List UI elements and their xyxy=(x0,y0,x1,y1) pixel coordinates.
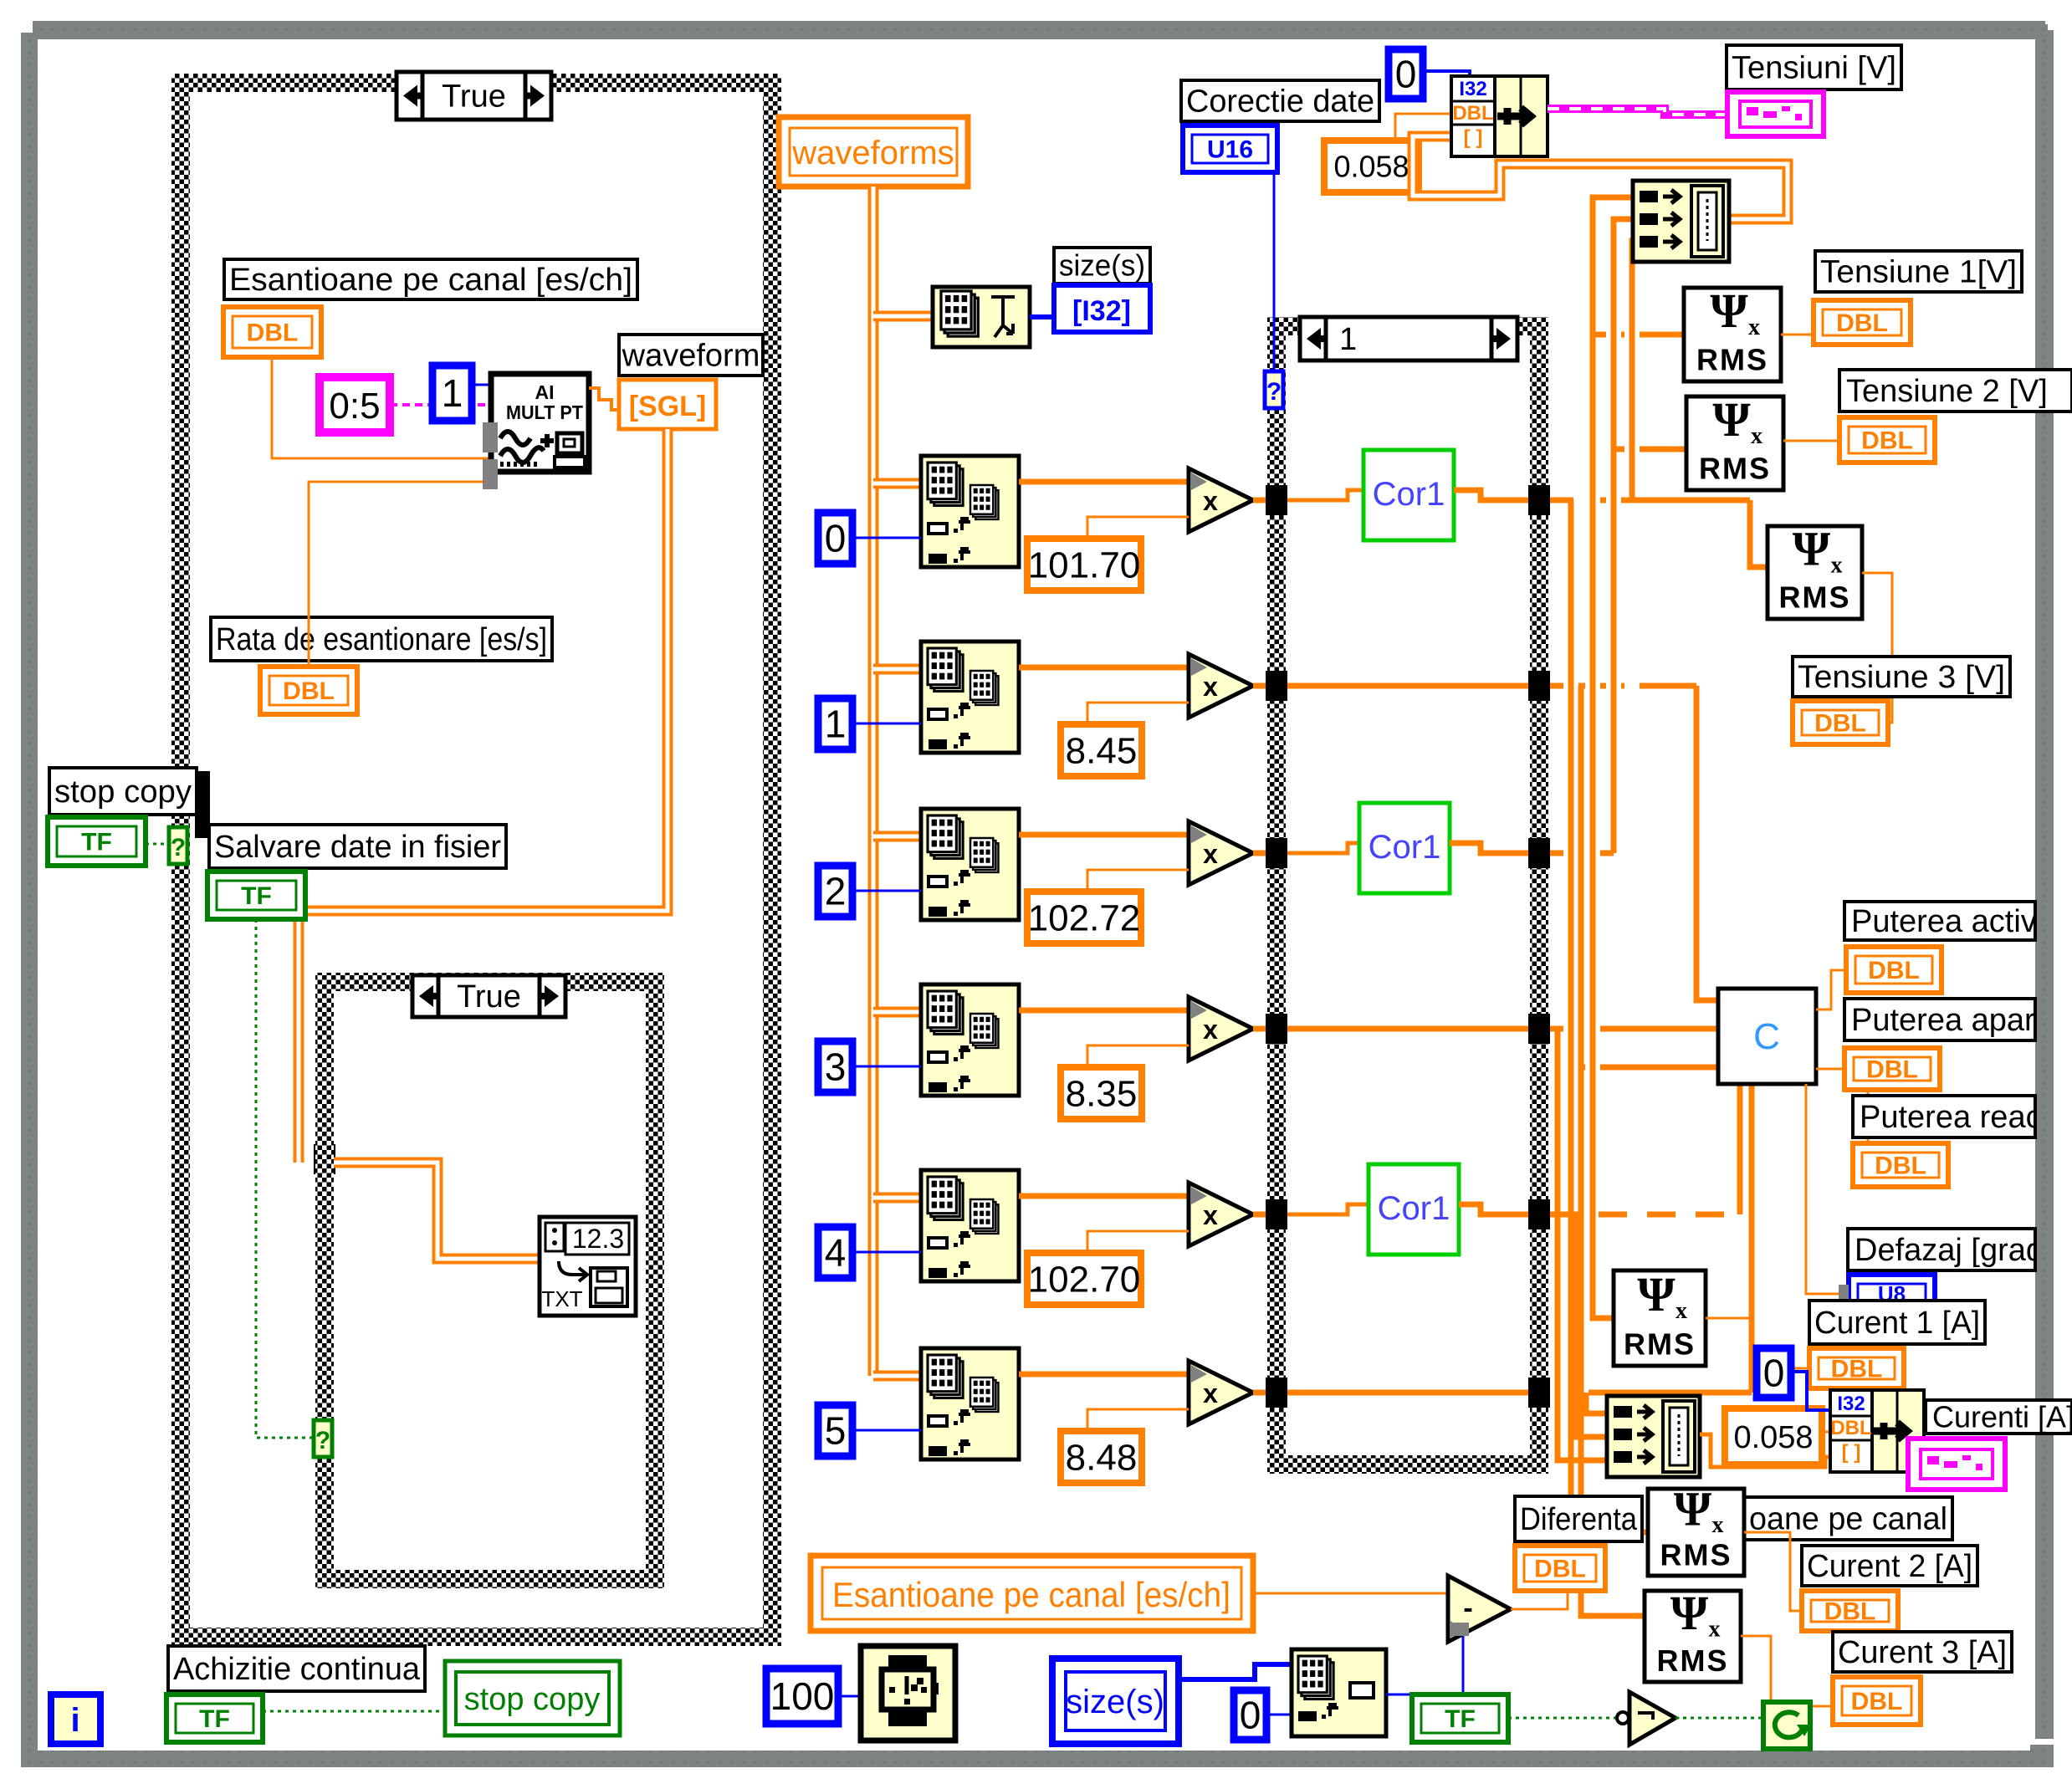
multiply node row 4 xyxy=(1189,1183,1253,1246)
svg-text:x: x xyxy=(1203,1378,1218,1408)
svg-text:RMS: RMS xyxy=(1779,580,1851,615)
wire across case 3 row 1 xyxy=(1287,683,1528,689)
svg-text:waveform: waveform xyxy=(622,338,760,373)
array wire branch to Array Size xyxy=(873,311,933,322)
wire row1 elbow into RMS3 xyxy=(1750,500,1768,567)
svg-text:[ ]: [ ] xyxy=(1464,126,1483,149)
rail to RMS5 input xyxy=(1568,500,1574,1532)
constant "0" (bundle 2 index) xyxy=(1757,1348,1791,1398)
svg-text:102.72: 102.72 xyxy=(1028,897,1141,938)
label "Salvare date in fisier" xyxy=(209,825,506,868)
svg-text:Cor1: Cor1 xyxy=(1378,1190,1450,1227)
wire AI node to waveform indicator xyxy=(589,388,621,410)
label "waveforms" (wire label) xyxy=(779,117,968,187)
svg-text:DBL: DBL xyxy=(1836,309,1888,337)
tunnel case 3 left row 2 xyxy=(1266,838,1287,868)
indicator "[SGL]" (waveform array) xyxy=(619,380,716,429)
multiply node row 1 xyxy=(1189,654,1253,718)
label "Diferenta" xyxy=(1515,1496,1642,1541)
wire Index Array out row 2 xyxy=(1019,832,1189,838)
constant "2" row index xyxy=(818,866,852,917)
rail to RMS6 input xyxy=(1581,686,1645,1616)
indicator DBL "Curent 3" xyxy=(1833,1677,1921,1725)
svg-text:Esantioane pe canal [es/ch]: Esantioane pe canal [es/ch] xyxy=(832,1575,1230,1614)
case structure 3 selector terminal "?" xyxy=(1265,371,1283,408)
control DBL "Rata de esantionare" xyxy=(260,667,357,714)
svg-text:DBL: DBL xyxy=(247,319,299,347)
label "Curenti [A]" xyxy=(1926,1399,2072,1434)
case structure 2 selector label "True" xyxy=(412,975,565,1017)
boolean wire TF to Not gate xyxy=(1508,1717,1619,1720)
wire Index Array out row 3 xyxy=(1019,1008,1189,1014)
waveform wire Bundle 1 to Tensiuni graph (magenta) xyxy=(1548,109,1727,115)
black junction block (stop copy) xyxy=(195,771,210,838)
svg-text:DBL: DBL xyxy=(283,677,335,705)
wire RMS3 to DBL Tensiune 3 xyxy=(1862,573,1892,723)
svg-text:Cor1: Cor1 xyxy=(1369,829,1441,866)
svg-text:102.70: 102.70 xyxy=(1028,1259,1141,1300)
svg-text:Curent 3 [A]: Curent 3 [A] xyxy=(1838,1635,2007,1670)
svg-text:Curenti [A]: Curenti [A] xyxy=(1932,1399,2072,1434)
svg-text:1: 1 xyxy=(1339,322,1357,357)
subVI "Cor1" row 4 xyxy=(1369,1164,1459,1255)
wire U16 to case 3 selector xyxy=(1273,172,1276,371)
wire constant 8.45 to multiply xyxy=(1087,703,1189,724)
wire constant 8.48 to multiply xyxy=(1087,1409,1189,1431)
label "Defazaj [grade]" xyxy=(1848,1229,2070,1270)
svg-text:x: x xyxy=(1748,314,1760,340)
constant "0" (index bottom) xyxy=(1234,1690,1266,1740)
svg-text:12.3: 12.3 xyxy=(572,1224,624,1254)
label "Curent 3 [A]" xyxy=(1833,1632,2012,1672)
rail V2 (build array 1 input 2 / RMS2) xyxy=(1614,219,1633,853)
array wire tunnel to Write File node xyxy=(334,1163,540,1259)
tunnel case 3 left row 5 xyxy=(1266,1378,1287,1408)
node "Write to Spreadsheet File" (12.3 TXT) xyxy=(540,1217,636,1316)
wire row5 dashes to C rail xyxy=(1550,1212,1740,1218)
constant "1" (device) xyxy=(432,365,472,421)
label "Corectie date" xyxy=(1181,80,1379,121)
svg-text:8.45: 8.45 xyxy=(1066,730,1138,771)
wire 100 to Wait node xyxy=(838,1695,861,1698)
wire Cor1 to tunnel row 2 xyxy=(1450,843,1528,853)
svg-text:x: x xyxy=(1709,1617,1721,1643)
boolean wire Salvare to case 2 selector xyxy=(256,919,315,1438)
indicator DBL "Curent 1" xyxy=(1809,1348,1904,1388)
indicator U8 "Defazaj" xyxy=(1849,1275,1935,1313)
case structure 1 selector label "True" xyxy=(396,72,551,120)
label "size(s)" xyxy=(1054,248,1150,284)
iteration terminal "i" xyxy=(51,1694,100,1744)
constant "8.35" row 3 xyxy=(1061,1067,1142,1119)
wire multiply out row 0 xyxy=(1253,498,1277,503)
node "RMS 4" xyxy=(1614,1267,1706,1366)
svg-text:TXT: TXT xyxy=(541,1286,582,1311)
wire tunnel to Cor1 row 4 xyxy=(1287,1204,1369,1214)
svg-text:RMS: RMS xyxy=(1696,343,1768,377)
svg-text:RMS: RMS xyxy=(1660,1538,1732,1572)
constant "101.70" row 0 xyxy=(1027,539,1141,590)
svg-text:TF: TF xyxy=(199,1705,230,1733)
label "Curent 2 [A]" xyxy=(1802,1546,1977,1586)
array wire waveforms trunk xyxy=(868,187,879,1376)
tunnel case 3 right row 1 xyxy=(1528,671,1550,701)
wire RMS1 input xyxy=(1593,332,1684,338)
wire 0:5 to AI node (magenta dashed) xyxy=(390,403,491,406)
node "Index Array" row 0 xyxy=(921,456,1019,567)
constant "8.48" row 5 xyxy=(1061,1431,1142,1483)
wire multiply out row 3 xyxy=(1253,1026,1277,1032)
tunnel on case 2 left border xyxy=(314,1144,335,1174)
indicator DBL "Tensiune 2" xyxy=(1839,417,1935,463)
wire constant 101.70 to multiply xyxy=(1087,517,1189,539)
svg-text:True: True xyxy=(457,979,521,1015)
wire row6 to C bottom rail xyxy=(1589,1390,1752,1396)
node "Bundle by Name 1" (I32/DBL/[]) xyxy=(1451,76,1548,156)
Not gate xyxy=(1617,1692,1676,1745)
svg-text:DBL: DBL xyxy=(1814,710,1866,738)
wire RMS2 input xyxy=(1614,447,1687,452)
svg-text:Tensiuni [V]: Tensiuni [V] xyxy=(1732,50,1896,85)
label "stop copy" xyxy=(49,768,197,815)
control TF "Achizitie continua" xyxy=(166,1694,263,1742)
label "Tensiune 2 [V]" xyxy=(1839,370,2072,411)
svg-text:DBL: DBL xyxy=(1861,427,1913,455)
wire Index Array 7 to subtract lower xyxy=(1386,1633,1463,1694)
wire multiply out row 2 xyxy=(1253,851,1277,856)
constant "0.058" (bottom) xyxy=(1725,1408,1822,1464)
svg-text:5: 5 xyxy=(825,1409,847,1453)
svg-text:DBL: DBL xyxy=(1851,1688,1903,1715)
control label "size(s)" (blue) xyxy=(1052,1659,1179,1744)
label "Rata de esantionare [es/s]" xyxy=(211,617,552,661)
label "Tensiune 1[V]" xyxy=(1815,251,2022,292)
svg-text:Ψ: Ψ xyxy=(1793,522,1831,576)
constant "3" row index xyxy=(818,1041,852,1092)
svg-text:Achizitie continua: Achizitie continua xyxy=(173,1652,421,1687)
svg-text:Rata de esantionare [es/s]: Rata de esantionare [es/s] xyxy=(216,622,547,657)
wire Index Array out row 1 xyxy=(1019,665,1189,671)
node "Index Array 7" (scalar) xyxy=(1292,1649,1386,1736)
tunnel case 3 left row 0 xyxy=(1266,485,1287,515)
svg-text:Tensiune 3 [V]: Tensiune 3 [V] xyxy=(1798,660,2005,695)
indicator graph "Tensiuni [V]" (magenta) xyxy=(1727,92,1824,136)
wire constant 5 to Index Array xyxy=(852,1429,921,1432)
coercion dot U8 xyxy=(1839,1285,1849,1303)
svg-text:True: True xyxy=(442,79,506,115)
control TF "stop copy" xyxy=(48,817,146,866)
wire constant 102.72 to multiply xyxy=(1087,870,1189,892)
constant "0" row index xyxy=(818,513,852,564)
tunnel case 3 right row 3 xyxy=(1528,1014,1550,1044)
svg-text:0.058: 0.058 xyxy=(1733,1420,1813,1455)
wire Index Array out row 5 xyxy=(1019,1372,1189,1378)
subVI "Cor1" row 2 xyxy=(1359,803,1450,893)
rail V3 (build array 1 input 3) xyxy=(1632,241,1633,500)
svg-text:TF: TF xyxy=(81,829,112,856)
wire multiply out row 1 xyxy=(1253,683,1277,689)
svg-text:2: 2 xyxy=(825,870,847,913)
svg-text:Tensiune 1[V]: Tensiune 1[V] xyxy=(1820,254,2017,289)
wire subtract to DBL Diferenta xyxy=(1511,1591,1568,1609)
array wire branch to Index Array 1 xyxy=(873,664,921,675)
indicator DBL "Puterea activa" xyxy=(1846,947,1942,993)
wire RMS5 input xyxy=(1571,1530,1648,1536)
svg-text:waveforms: waveforms xyxy=(791,135,954,171)
case structure 1 border (True, outer) xyxy=(171,74,781,1646)
svg-text:[I32]: [I32] xyxy=(1072,295,1131,327)
svg-text:x: x xyxy=(1831,553,1843,579)
indicator DBL "Puterea reactiva" xyxy=(1853,1143,1948,1187)
node "Index Array" row 4 xyxy=(921,1170,1019,1281)
wire row1 to RMS3 column xyxy=(1550,498,1750,503)
label "Esantioane pe canal [es/ch]" xyxy=(224,259,637,299)
wire constant 8.35 to multiply xyxy=(1087,1045,1189,1067)
local variable "stop copy" xyxy=(445,1661,620,1735)
label "Tensiune 3 [V]" xyxy=(1793,657,2010,697)
svg-text:100: 100 xyxy=(770,1674,835,1718)
case structure 2 selector terminal "?" xyxy=(314,1420,332,1457)
subtract node xyxy=(1448,1576,1511,1642)
svg-text:Salvare date in fisier: Salvare date in fisier xyxy=(214,830,501,865)
svg-text:[ ]: [ ] xyxy=(1842,1441,1861,1464)
svg-text:RMS: RMS xyxy=(1624,1326,1696,1361)
subVI "Cor1" row 0 xyxy=(1363,450,1454,540)
wire across case 3 row 3 xyxy=(1287,1026,1528,1032)
case structure 1 selector terminal "?" xyxy=(169,827,187,864)
svg-text:Diferenta: Diferenta xyxy=(1520,1502,1638,1537)
constant "0" (bundle index) xyxy=(1389,49,1423,99)
wire 0.058 to Bundle 1 DBL xyxy=(1395,114,1451,141)
constant "100" (wait ms) xyxy=(766,1669,838,1724)
array wire branch to Index Array 4 xyxy=(873,1193,921,1204)
node "RMS 1" xyxy=(1684,284,1781,381)
node "Index Array" row 2 xyxy=(921,809,1019,920)
svg-text:4: 4 xyxy=(825,1231,847,1275)
constant "102.70" row 4 xyxy=(1027,1253,1141,1305)
control TF "Salvare date in fisier" xyxy=(207,871,305,919)
label "waveform" xyxy=(619,335,763,376)
rail to Build Array 2 input1 xyxy=(1586,1393,1607,1413)
wire Index Array out row 4 xyxy=(1019,1194,1189,1199)
svg-text:DBL: DBL xyxy=(1534,1556,1586,1583)
wire constant 0 to Index Array xyxy=(852,537,921,539)
svg-text:i: i xyxy=(70,1702,79,1739)
constant "5" row index xyxy=(818,1405,852,1456)
svg-text:x: x xyxy=(1203,839,1218,869)
svg-text:Corectie date: Corectie date xyxy=(1186,84,1374,119)
svg-text:I32: I32 xyxy=(1837,1393,1865,1415)
svg-text:Ψ: Ψ xyxy=(1710,284,1748,338)
label "Esantioane pe canal" (indicator) xyxy=(1744,1497,1952,1540)
svg-text:DBL: DBL xyxy=(1831,1356,1883,1383)
wire DBL Rata to AI node xyxy=(309,482,495,667)
node "Wait Until Next ms Multiple" (watch) xyxy=(861,1646,955,1740)
array wire waveform to inner case xyxy=(299,429,668,1163)
node "AI MULT PT" (AI Acquire Waveforms) xyxy=(483,374,589,489)
svg-text:8.35: 8.35 xyxy=(1066,1073,1138,1114)
svg-text:1: 1 xyxy=(442,371,463,415)
svg-text:0: 0 xyxy=(1763,1352,1785,1395)
rail to Build Array 2 input3 xyxy=(1558,1029,1607,1460)
tunnel case 3 right row 4 xyxy=(1528,1199,1550,1229)
svg-text:?: ? xyxy=(1266,378,1282,406)
node "Build Array 2" xyxy=(1607,1396,1700,1477)
control DBL "Esantioane pe canal" xyxy=(223,307,321,357)
node "RMS 3" xyxy=(1768,522,1862,619)
wire C to DBL Puterea activa xyxy=(1816,970,1846,1010)
svg-text:0.058: 0.058 xyxy=(1333,150,1409,184)
loop condition terminal xyxy=(1763,1702,1812,1749)
wire 0 to Bundle 2 xyxy=(1791,1372,1830,1410)
case structure 2 border (True, nested) xyxy=(315,973,664,1588)
case structure 3 selector label "1" xyxy=(1300,317,1517,360)
wire multiply out row 5 xyxy=(1253,1390,1277,1396)
svg-text:Cor1: Cor1 xyxy=(1373,476,1445,513)
svg-text:0: 0 xyxy=(825,517,847,560)
svg-text:Ψ: Ψ xyxy=(1674,1482,1712,1536)
svg-text:x: x xyxy=(1203,1015,1218,1045)
wire Esantioane label to subtract xyxy=(1253,1592,1448,1595)
formula node "C" xyxy=(1718,989,1816,1084)
svg-text:Curent 2 [A]: Curent 2 [A] xyxy=(1807,1549,1972,1584)
wire C to DBL Puterea aparenta xyxy=(1816,1068,1844,1071)
constant "4" row index xyxy=(818,1227,852,1278)
wire DBL Esantioane to AI node xyxy=(272,357,495,458)
svg-text:3: 3 xyxy=(825,1045,847,1089)
wire 0 to Bundle 1 xyxy=(1423,71,1470,84)
wire constant 102.70 to multiply xyxy=(1087,1231,1189,1253)
node "Index Array" row 3 xyxy=(921,984,1019,1096)
coercion dot subtract xyxy=(1454,1623,1469,1636)
svg-text:Tensiune 2 [V]: Tensiune 2 [V] xyxy=(1846,374,2048,409)
label "Puterea aparenta" xyxy=(1844,999,2072,1040)
node "RMS 2" xyxy=(1686,392,1783,490)
svg-text:stop copy: stop copy xyxy=(464,1682,601,1717)
svg-text:I32: I32 xyxy=(1459,78,1486,100)
wire C to U8 Defazaj xyxy=(1806,1084,1844,1294)
node "Build Array 1" xyxy=(1633,181,1729,262)
svg-text:8.48: 8.48 xyxy=(1066,1437,1138,1478)
svg-text:Ψ: Ψ xyxy=(1670,1586,1709,1640)
svg-text:Ψ: Ψ xyxy=(1637,1267,1676,1321)
array wire branch to Index Array 0 xyxy=(873,478,921,489)
wire tunnel to Cor1 row 0 xyxy=(1287,490,1363,500)
wire tunnel to Cor1 row 2 xyxy=(1287,843,1359,853)
svg-text:x: x xyxy=(1712,1512,1724,1538)
multiply node row 5 xyxy=(1189,1361,1253,1424)
node "Index Array" row 5 xyxy=(921,1348,1019,1459)
wire RMS4 to DBL Curent 1 xyxy=(1706,1318,1809,1368)
constant "8.45" row 1 xyxy=(1061,724,1142,776)
array wire branch to Index Array 2 xyxy=(873,831,921,842)
svg-text:-: - xyxy=(1463,1592,1472,1624)
svg-text:[SGL]: [SGL] xyxy=(629,391,707,422)
svg-text:x: x xyxy=(1751,423,1762,449)
svg-text:TF: TF xyxy=(241,882,272,910)
wire row2 elbow to C input xyxy=(1696,686,1718,1000)
svg-text:DBL: DBL xyxy=(1875,1153,1926,1180)
svg-text:Puterea activa: Puterea activa xyxy=(1851,904,2055,939)
boolean wire Achizitie to stop copy local xyxy=(263,1710,445,1713)
wire Index Array out row 0 xyxy=(1019,479,1189,485)
wire row5 rail up to C bottom xyxy=(1737,1084,1743,1214)
svg-text:1: 1 xyxy=(825,703,847,746)
svg-text:U16: U16 xyxy=(1207,136,1253,164)
wire RMS2 to DBL Tensiune 2 xyxy=(1783,440,1839,442)
wire DBL aparenta to DBL reactiva xyxy=(1867,1090,1870,1143)
node "Array Size" xyxy=(933,287,1030,347)
tunnel case 3 right row 0 xyxy=(1528,485,1550,515)
wire 0.058 to Bundle 2 DBL xyxy=(1822,1431,1830,1434)
svg-text:size(s): size(s) xyxy=(1059,248,1145,283)
svg-text:x: x xyxy=(1203,672,1218,702)
svg-text:DBL: DBL xyxy=(1830,1417,1871,1439)
wire across case 3 row 5 xyxy=(1287,1390,1528,1396)
wire RMS6 to DBL Curent 3 xyxy=(1741,1636,1833,1706)
svg-text:DBL: DBL xyxy=(1824,1598,1876,1626)
wire row3 rail xyxy=(1550,851,1614,856)
tunnel case 3 left row 3 xyxy=(1266,1014,1287,1044)
svg-text:MULT PT: MULT PT xyxy=(506,401,583,423)
control TF (bottom) xyxy=(1412,1694,1508,1742)
tunnel case 3 right row 5 xyxy=(1528,1378,1550,1408)
tunnel case 3 left row 4 xyxy=(1266,1199,1287,1229)
rail V1 (build array 1 input 1 / RMS1 / RMS4) xyxy=(1593,197,1633,1318)
label "Puterea activa" xyxy=(1844,902,2055,940)
svg-text:size(s): size(s) xyxy=(1066,1684,1164,1720)
wire RMS1 to DBL Tensiune 1 xyxy=(1781,334,1814,336)
svg-text:Ψ: Ψ xyxy=(1712,392,1751,447)
wire multiply out row 4 xyxy=(1253,1212,1277,1218)
tunnel case 3 right row 2 xyxy=(1528,838,1550,868)
indicator DBL "Diferenta" xyxy=(1515,1546,1605,1591)
label "Curent 1 [A]" xyxy=(1809,1301,1985,1344)
svg-text:x: x xyxy=(1203,1200,1218,1230)
wire 0 to Index Array 7 xyxy=(1266,1714,1292,1716)
indicator DBL "Tensiune 3" xyxy=(1793,701,1888,744)
indicator DBL "Tensiune 1" xyxy=(1814,300,1911,345)
svg-text:TF: TF xyxy=(1445,1705,1476,1733)
constant "0.058" (top) xyxy=(1324,141,1419,192)
svg-text:?: ? xyxy=(171,834,186,861)
multiply node row 3 xyxy=(1189,997,1253,1061)
boolean wire TF stop copy to case selector xyxy=(146,843,171,846)
label "Tensiuni [V]" xyxy=(1727,45,1901,89)
case structure 3 border (corrections) xyxy=(1267,317,1548,1474)
wire row6 rail up to C bottom xyxy=(1749,1084,1755,1393)
wire Cor1 to tunnel row 4 xyxy=(1459,1204,1528,1214)
wire constant 1 to Index Array xyxy=(852,723,921,725)
wire Array Size to [I32] xyxy=(1030,314,1054,319)
svg-text:0: 0 xyxy=(1240,1694,1261,1737)
wire row2 rail xyxy=(1550,683,1696,689)
indicator graph "Curenti" (magenta) xyxy=(1908,1439,2005,1490)
array wire Build Array 2 to Bundle 2 xyxy=(1700,1434,1830,1467)
svg-text:C: C xyxy=(1753,1016,1780,1057)
svg-text:101.70: 101.70 xyxy=(1028,544,1141,585)
svg-text:Esantioane pe canal [es/ch]: Esantioane pe canal [es/ch] xyxy=(229,263,632,298)
indicator "[I32]" xyxy=(1054,285,1150,332)
label "Achizitie continua" xyxy=(168,1646,425,1691)
wire row4 branch to C lower input xyxy=(1581,1065,1718,1071)
svg-text:?: ? xyxy=(315,1427,330,1454)
svg-text:RMS: RMS xyxy=(1657,1643,1729,1678)
node "Index Array" row 1 xyxy=(921,641,1019,753)
control label "Esantioane pe canal [es/ch]" (orange) xyxy=(811,1556,1253,1631)
node "RMS 5" xyxy=(1648,1482,1744,1576)
wire constant 3 to Index Array xyxy=(852,1066,921,1068)
